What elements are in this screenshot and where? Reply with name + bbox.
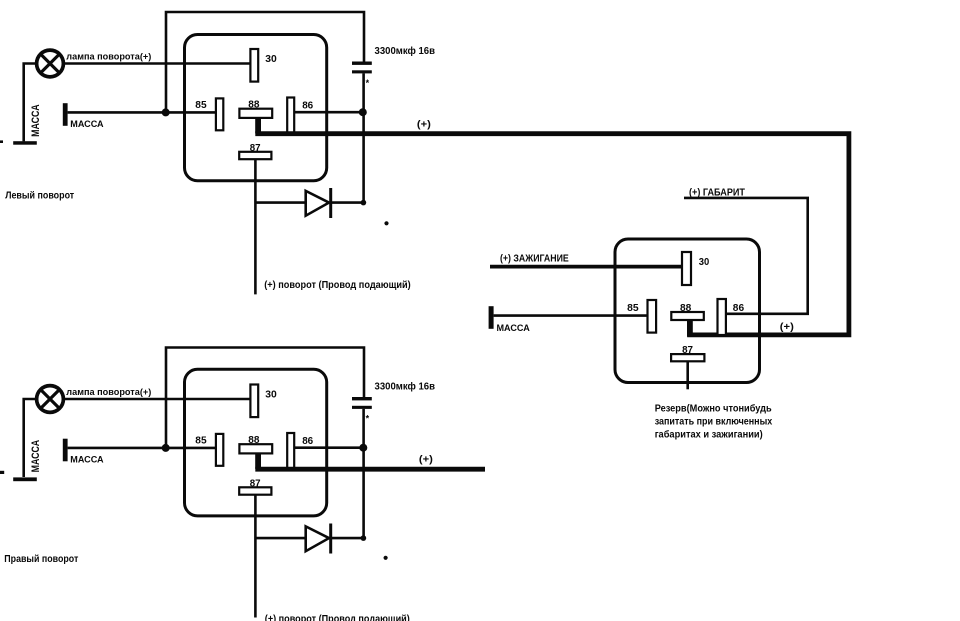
wire lamp HL1 to ground (24, 64, 38, 142)
svg-text:87: 87 (250, 143, 261, 154)
relay K2 pin 30 contact (250, 385, 258, 418)
svg-text:МАССА: МАССА (70, 455, 103, 466)
relay K2 pin 85 contact (216, 434, 223, 466)
relay K3 pin 87 contact (671, 354, 704, 361)
ground terminal МАССА (relay K3 pin 85) (489, 306, 494, 329)
svg-text:(+): (+) (417, 119, 431, 130)
wire lamp HL2 to ground (24, 399, 38, 477)
lamp HL1 (left turn lamp) (37, 50, 64, 77)
junction node (ground net / top loop K2) (162, 444, 170, 452)
ground symbol (lamp HL2) (13, 477, 37, 481)
svg-text:МАССА: МАССА (30, 104, 42, 137)
relay K1 pin 86 contact (287, 98, 294, 133)
relay K2 pin 87 contact (239, 487, 271, 494)
svg-text:30: 30 (265, 54, 277, 65)
ground mark at image edge (0, 140, 3, 143)
svg-text:30: 30 (265, 389, 277, 400)
capacitor C2 plates (352, 397, 372, 409)
wire pin 86 (K3) to ГАБАРИТ (684, 198, 808, 314)
wire lamp HL1 to pin 30 (62, 62, 250, 65)
svg-text:(+): (+) (780, 322, 794, 333)
junction node (VD1 cathode / C1) (361, 200, 367, 206)
lamp HL2 (right turn lamp) (37, 386, 64, 413)
ground symbol (lamp HL1) (13, 141, 37, 145)
wire pin 87 (K3) stub down (686, 361, 689, 389)
wire top loop (ground net to capacitor C2) (166, 348, 364, 448)
relay K1 body (185, 35, 327, 181)
svg-text:86: 86 (733, 303, 745, 314)
svg-text:(+): (+) (419, 454, 433, 465)
diode VD1 (255, 188, 361, 218)
capacitor C1 plates (352, 62, 372, 74)
relay K1 pin 30 contact (250, 49, 258, 82)
relay K3 pin 30 contact (682, 252, 691, 285)
svg-text:Левый поворот: Левый поворот (5, 191, 74, 202)
relay K3 pin 85 contact (648, 300, 657, 333)
svg-text:габаритах и зажигании): габаритах и зажигании) (655, 429, 763, 441)
wire МАССА terminal to pin 85 (K2) (68, 447, 216, 450)
wire pin 87 (K2) down to feed label (254, 495, 257, 618)
svg-text:30: 30 (699, 257, 710, 268)
junction node (ground net / top loop) (162, 108, 170, 116)
svg-text:(+) ЗАЖИГАНИЕ: (+) ЗАЖИГАНИЕ (500, 253, 569, 264)
svg-text:МАССА: МАССА (70, 119, 103, 130)
svg-text:*: * (366, 78, 370, 88)
wire pin 86 to capacitor C1 (294, 111, 362, 114)
svg-text:(+) поворот (Провод подающий): (+) поворот (Провод подающий) (264, 280, 411, 291)
svg-text:85: 85 (195, 435, 207, 446)
ground mark at image edge (lower) (0, 471, 4, 474)
wire МАССА terminal to pin 85 (68, 111, 216, 114)
wire МАССА terminal to pin 85 (K3) (494, 314, 648, 317)
relay K2 pin 86 contact (287, 433, 294, 468)
svg-text:МАССА: МАССА (30, 440, 42, 473)
wire capacitor C1 bottom to diode VD1 cathode (362, 73, 365, 202)
svg-text:85: 85 (627, 303, 639, 314)
wire (+) feed (thick, K2 pin 88) (255, 467, 485, 472)
relay K1 pin 87 contact (239, 152, 271, 159)
svg-text:86: 86 (302, 436, 313, 447)
ground terminal МАССА (relay 1 pin 85) (63, 103, 68, 126)
relay K1 pin 85 contact (216, 98, 223, 130)
svg-text:*: * (366, 414, 370, 424)
wire pin 86 to capacitor C2 (294, 446, 362, 449)
pin 88 stub to (+) bus (K2) (255, 453, 261, 469)
wire pin 87 (K1) down to feed label (254, 159, 257, 294)
relay K1 pin 88 contact (239, 109, 272, 118)
relay K3 pin 86 contact (718, 299, 726, 335)
relay K2 body (185, 369, 327, 516)
svg-text:87: 87 (682, 345, 693, 356)
junction node (86 net / C1) (359, 108, 367, 116)
svg-text:87: 87 (250, 478, 261, 489)
svg-text:88: 88 (248, 435, 260, 446)
diode VD2 (255, 524, 361, 554)
svg-text:(+) поворот (Провод подающий): (+) поворот (Провод подающий) (265, 614, 410, 621)
pin 88 stub to (+) bus (K1) (255, 117, 261, 133)
svg-text:МАССА: МАССА (497, 323, 530, 334)
svg-text:запитать при включенных: запитать при включенных (655, 417, 773, 428)
svg-text:лампа поворота(+): лампа поворота(+) (66, 52, 151, 63)
svg-text:лампа поворота(+): лампа поворота(+) (66, 387, 151, 398)
relay K3 pin 88 contact (671, 312, 704, 320)
wire lamp HL2 to pin 30 (K2) (62, 398, 250, 401)
wire top loop (ground net to capacitor C1) (166, 12, 364, 112)
wire (+) ЗАЖИГАНИЕ to pin 30 (K3) (490, 265, 682, 269)
svg-text:88: 88 (680, 303, 692, 314)
svg-text:86: 86 (302, 101, 313, 112)
relay K3 body (615, 239, 760, 383)
svg-text:Резерв(Можно чтонибудь: Резерв(Можно чтонибудь (655, 403, 772, 415)
junction node (86 net / C2) (359, 444, 367, 452)
label: Резерв note (3 lines) (655, 403, 773, 441)
svg-text:(+) ГАБАРИТ: (+) ГАБАРИТ (689, 187, 745, 198)
wire capacitor C2 bottom to diode VD2 cathode (362, 409, 365, 538)
wire (+) supply bus (thick, K1 pin 88 to K3 pin 88) (255, 134, 849, 335)
svg-text:3300мкф 16в: 3300мкф 16в (375, 380, 436, 392)
svg-text:Правый поворот: Правый поворот (4, 554, 78, 565)
svg-text:3300мкф 16в: 3300мкф 16в (375, 45, 436, 57)
relay K2 pin 88 contact (239, 444, 272, 453)
svg-text:85: 85 (195, 100, 207, 111)
stray dot mark (lower) (384, 556, 388, 560)
junction node (VD2 cathode / C2) (361, 535, 367, 541)
pin 88 stub to (+) bus (K3) (687, 320, 693, 337)
ground terminal МАССА (relay K2 pin 85) (63, 439, 68, 462)
svg-text:88: 88 (248, 100, 260, 111)
stray dot mark (upper) (384, 221, 388, 225)
